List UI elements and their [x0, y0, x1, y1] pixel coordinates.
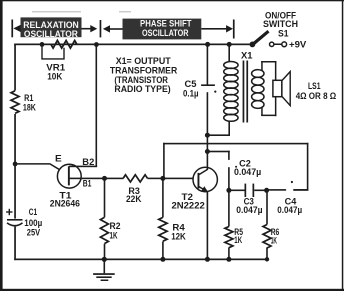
svg-text:B1: B1 — [83, 178, 92, 188]
svg-text:X1: X1 — [241, 51, 253, 61]
svg-text:0.047µ: 0.047µ — [277, 205, 302, 215]
svg-text:12K: 12K — [171, 231, 186, 241]
svg-text:1K: 1K — [110, 230, 118, 240]
svg-text:+9V: +9V — [289, 39, 306, 49]
svg-text:25V: 25V — [27, 227, 40, 237]
svg-text:2N2646: 2N2646 — [50, 199, 80, 209]
svg-text:0.047µ: 0.047µ — [236, 205, 262, 215]
svg-text:OSCILLATOR: OSCILLATOR — [24, 29, 79, 39]
svg-text:18K: 18K — [23, 103, 36, 113]
svg-text:RADIO TYPE): RADIO TYPE) — [114, 84, 170, 94]
svg-text:B2: B2 — [82, 157, 94, 167]
svg-text:OSCILLATOR: OSCILLATOR — [142, 28, 189, 38]
svg-text:22K: 22K — [126, 194, 142, 204]
svg-text:2N2222: 2N2222 — [172, 200, 205, 210]
svg-text:S1: S1 — [278, 29, 289, 39]
svg-text:0.047µ: 0.047µ — [234, 167, 261, 177]
svg-text:LS1: LS1 — [308, 81, 321, 91]
svg-text:C5: C5 — [185, 79, 197, 89]
svg-text:SWITCH: SWITCH — [263, 19, 298, 29]
svg-text:TRANSFORMER: TRANSFORMER — [110, 65, 178, 75]
svg-text:C1: C1 — [29, 207, 37, 217]
svg-text:4Ω OR 8 Ω: 4Ω OR 8 Ω — [296, 91, 337, 101]
svg-text:10K: 10K — [47, 72, 63, 82]
svg-text:1K: 1K — [234, 235, 242, 245]
svg-text:0.1µ: 0.1µ — [183, 88, 199, 98]
svg-text:1K: 1K — [271, 235, 278, 245]
svg-text:E: E — [55, 154, 62, 164]
